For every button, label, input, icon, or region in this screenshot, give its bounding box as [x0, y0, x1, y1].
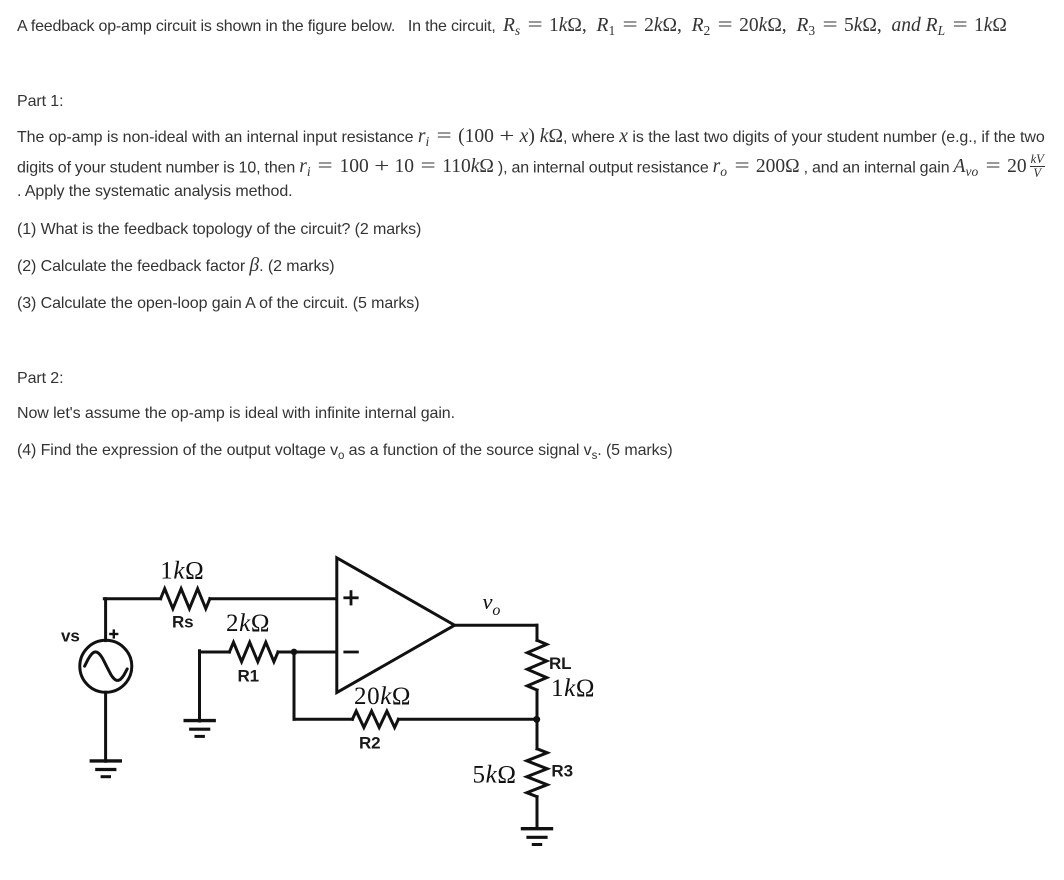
svg-text:R3: R3 — [551, 762, 573, 781]
svg-text:1kΩ: 1kΩ — [551, 675, 595, 702]
svg-text:R1: R1 — [238, 667, 260, 686]
svg-text:2kΩ: 2kΩ — [226, 610, 270, 637]
svg-text:RL: RL — [549, 654, 571, 673]
svg-text:1kΩ: 1kΩ — [160, 558, 204, 585]
svg-text:5kΩ: 5kΩ — [473, 761, 517, 788]
svg-text:R2: R2 — [359, 733, 381, 752]
svg-text:vo: vo — [483, 589, 501, 619]
svg-text:Rs: Rs — [172, 613, 194, 632]
svg-text:20kΩ: 20kΩ — [354, 683, 411, 710]
svg-text:vs: vs — [61, 627, 80, 646]
